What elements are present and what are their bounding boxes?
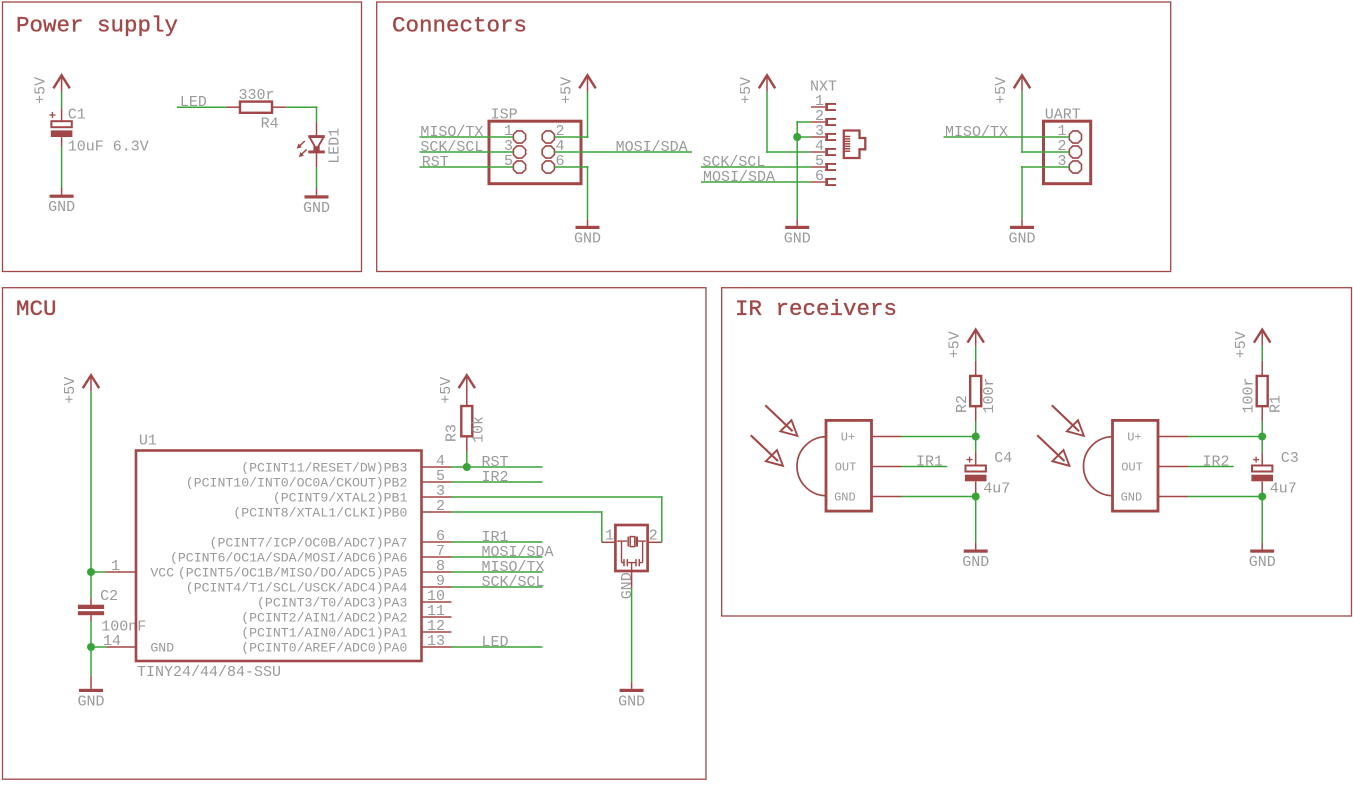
pin NXT 3 bbox=[811, 136, 825, 138]
svg-text:LED: LED bbox=[482, 634, 509, 651]
svg-text:(PCINT4/T1/SCL/USCK/ADC4)PA4: (PCINT4/T1/SCL/USCK/ADC4)PA4 bbox=[186, 580, 408, 595]
+5V supply IR1 bbox=[968, 330, 984, 343]
pin R3 top bbox=[466, 392, 468, 407]
wire PB1 to resonator pin2 bbox=[452, 496, 662, 498]
wire GND to cap IR1 bbox=[902, 496, 976, 498]
pin C3 minus bbox=[1261, 482, 1263, 497]
led LED1 emission arrows bbox=[299, 141, 304, 146]
wire OUT net IR1 bbox=[902, 466, 948, 468]
wire U+ to +5V IR2 bbox=[1188, 436, 1262, 438]
wire +5V to C1 bbox=[61, 92, 63, 109]
pin R2 top bbox=[975, 361, 977, 376]
frame Connectors section bbox=[377, 2, 1171, 272]
svg-text:R4: R4 bbox=[261, 115, 279, 132]
wire VCC to pin 1 bbox=[91, 571, 106, 573]
svg-text:C3: C3 bbox=[1281, 450, 1299, 467]
pin U1 9 bbox=[422, 586, 452, 588]
junction GND net IR2 bbox=[1258, 493, 1266, 501]
svg-text:GND: GND bbox=[1249, 554, 1276, 571]
wire IR1 bbox=[452, 541, 543, 543]
ir receiver module IR2 bbox=[1113, 420, 1159, 511]
pin U1 8 bbox=[422, 571, 452, 573]
junction VCC node bbox=[87, 568, 95, 576]
svg-text:(PCINT2/AIN1/ADC2)PA2: (PCINT2/AIN1/ADC2)PA2 bbox=[241, 610, 407, 625]
wire MOSI/SDA to NXT6 bbox=[701, 181, 811, 183]
svg-text:GND: GND bbox=[150, 640, 174, 655]
svg-text:(PCINT5/OC1B/MISO/DO/ADC5)PA5: (PCINT5/OC1B/MISO/DO/ADC5)PA5 bbox=[178, 565, 408, 580]
junction GND node bbox=[87, 643, 95, 651]
svg-text:Connectors: Connectors bbox=[392, 12, 527, 38]
svg-text:1: 1 bbox=[605, 528, 614, 545]
pin U1 1 VCC bbox=[106, 571, 136, 573]
svg-text:(PCINT7/ICP/OC0B/ADC7)PA7: (PCINT7/ICP/OC0B/ADC7)PA7 bbox=[210, 535, 408, 550]
wire +5V to VCC bbox=[90, 392, 92, 599]
svg-text:R1: R1 bbox=[1268, 395, 1285, 413]
svg-text:U+: U+ bbox=[1127, 431, 1141, 445]
svg-text:GND: GND bbox=[962, 554, 989, 571]
pin ISP 4 bbox=[542, 146, 554, 158]
wire LED1 to GND bbox=[316, 167, 318, 189]
pin U1 4 bbox=[422, 466, 452, 468]
pin U1 14 GND bbox=[107, 646, 136, 648]
svg-text:4u7: 4u7 bbox=[983, 481, 1010, 498]
capacitor C3 bbox=[1253, 459, 1259, 461]
pin U1 13 bbox=[422, 646, 452, 648]
wire SCK/SCL to NXT5 bbox=[701, 166, 811, 168]
wire +5V to R1 bbox=[1261, 346, 1263, 361]
svg-text:10uF 6.3V: 10uF 6.3V bbox=[68, 139, 149, 156]
wire R4 to LED1 bbox=[286, 106, 317, 108]
junction RST net bbox=[463, 463, 471, 471]
capacitor C2 bbox=[90, 598, 92, 604]
svg-text:(PCINT3/T0/ADC3)PA3: (PCINT3/T0/ADC3)PA3 bbox=[257, 595, 407, 610]
svg-text:(PCINT8/XTAL1/CLKI)PB0: (PCINT8/XTAL1/CLKI)PB0 bbox=[233, 505, 407, 520]
svg-text:GND: GND bbox=[784, 230, 811, 247]
ir light arrows IR2 bbox=[1052, 405, 1079, 431]
wire +5V to R2 bbox=[975, 346, 977, 361]
pin C4 plus bbox=[975, 453, 977, 466]
svg-text:R3: R3 bbox=[444, 424, 461, 442]
+5V supply P1 bbox=[53, 75, 69, 88]
wire GND node to pin 14 bbox=[91, 646, 107, 648]
junction GND net IR1 bbox=[972, 493, 980, 501]
ground GND7 bbox=[631, 682, 633, 689]
pin R1 bottom bbox=[1261, 406, 1263, 421]
svg-text:4u7: 4u7 bbox=[1270, 481, 1297, 498]
pin U1 6 bbox=[422, 541, 452, 543]
wire MISO/TX to ISP1 bbox=[420, 136, 514, 138]
wire R3 to RST bbox=[466, 452, 468, 468]
ground IR1 bbox=[975, 543, 977, 550]
pin UART 2 bbox=[1069, 146, 1081, 158]
ground GND3 bbox=[587, 219, 589, 226]
svg-text:+5V: +5V bbox=[993, 77, 1010, 104]
pin IR2 U+ bbox=[1158, 436, 1188, 438]
svg-text:+5V: +5V bbox=[33, 77, 50, 104]
svg-text:U+: U+ bbox=[841, 431, 855, 445]
pin C1 minus bbox=[61, 137, 63, 146]
svg-text:C1: C1 bbox=[68, 107, 86, 124]
wire +5V to NXT4 bbox=[766, 92, 768, 153]
svg-text:R2: R2 bbox=[954, 395, 971, 413]
resonator Q1 bbox=[602, 541, 616, 543]
svg-text:SCK/SCL: SCK/SCL bbox=[482, 574, 545, 591]
svg-text:LED1: LED1 bbox=[326, 128, 343, 164]
wire SCK/SCL to ISP3 bbox=[420, 151, 514, 153]
wire junction to cap C4 bbox=[975, 437, 977, 453]
pin R4 right bbox=[272, 106, 286, 108]
capacitor C4 bbox=[967, 459, 973, 461]
pin IR1 GND bbox=[872, 496, 902, 498]
pin LED1 cathode bbox=[316, 152, 318, 167]
pin R1 top bbox=[1261, 361, 1263, 376]
svg-text:(PCINT1/AIN0/ADC1)PA1: (PCINT1/AIN0/ADC1)PA1 bbox=[241, 625, 407, 640]
wire RST bbox=[452, 466, 543, 468]
svg-text:(PCINT6/OC1A/SDA/MOSI/ADC6)PA6: (PCINT6/OC1A/SDA/MOSI/ADC6)PA6 bbox=[170, 550, 407, 565]
svg-text:6: 6 bbox=[815, 168, 824, 185]
wire R2 to U+ net bbox=[975, 422, 977, 437]
pin R2 bottom bbox=[975, 406, 977, 421]
wire to GND IR1 bbox=[975, 497, 977, 544]
wire MISO/TX to UART1 bbox=[944, 136, 1070, 138]
svg-text:OUT: OUT bbox=[1121, 461, 1143, 475]
+5V supply P6 bbox=[459, 375, 475, 388]
ground GND4 bbox=[796, 219, 798, 226]
pin U1 7 bbox=[422, 556, 452, 558]
svg-text:+5V: +5V bbox=[738, 77, 755, 104]
wire IR2 bbox=[452, 481, 543, 483]
jack RJ12 symbol bbox=[844, 131, 866, 159]
svg-text:+5V: +5V bbox=[438, 377, 455, 404]
svg-text:GND: GND bbox=[48, 199, 75, 216]
wire +5V to ISP2 bbox=[587, 92, 589, 138]
+5V supply IR2 bbox=[1254, 330, 1270, 343]
svg-text:100r: 100r bbox=[981, 377, 998, 413]
frame MCU section bbox=[3, 288, 707, 780]
wire ISP6 to GND bbox=[554, 166, 588, 168]
svg-text:U1: U1 bbox=[139, 433, 157, 450]
wire to GND IR2 bbox=[1261, 497, 1263, 544]
+5V supply P2 bbox=[579, 75, 595, 88]
pin R4 left bbox=[226, 106, 240, 108]
pin C1 plus bbox=[61, 108, 63, 121]
svg-text:IR1: IR1 bbox=[916, 454, 943, 471]
svg-text:VCC: VCC bbox=[150, 565, 174, 580]
wire LED mcu bbox=[452, 646, 543, 648]
pin ISP 6 bbox=[542, 161, 554, 173]
svg-text:+5V: +5V bbox=[1233, 331, 1250, 358]
svg-text:C4: C4 bbox=[994, 450, 1012, 467]
wire PB0 to resonator pin1 bbox=[452, 511, 602, 513]
pin UART 1 bbox=[1069, 131, 1081, 143]
pin resonator gnd bbox=[631, 571, 633, 588]
+5V supply P4 bbox=[1014, 75, 1030, 88]
pin IR2 GND bbox=[1158, 496, 1188, 498]
svg-text:GND: GND bbox=[1008, 230, 1035, 247]
svg-text:MOSI/SDA: MOSI/SDA bbox=[703, 169, 775, 186]
junction NXT gnd net bbox=[793, 133, 801, 141]
svg-text:IR2: IR2 bbox=[1203, 454, 1230, 471]
svg-text:+5V: +5V bbox=[62, 377, 79, 404]
frame IR receivers section bbox=[722, 288, 1352, 616]
pin ISP 5 bbox=[513, 161, 525, 173]
ground GND5 bbox=[1021, 219, 1023, 226]
pin NXT 2 bbox=[811, 121, 825, 123]
svg-text:GND: GND bbox=[574, 230, 601, 247]
svg-text:MISO/TX: MISO/TX bbox=[945, 124, 1008, 141]
pin U1 10 bbox=[422, 601, 452, 603]
svg-text:OUT: OUT bbox=[835, 461, 857, 475]
led LED1 bbox=[308, 135, 325, 138]
ground GND2 bbox=[316, 189, 318, 196]
svg-text:2: 2 bbox=[649, 528, 658, 545]
wire MOSI/SDA mcu bbox=[452, 556, 543, 558]
ground IR2 bbox=[1261, 543, 1263, 550]
pin IR2 OUT bbox=[1158, 466, 1188, 468]
svg-text:13: 13 bbox=[427, 633, 445, 650]
+5V supply P5 bbox=[83, 375, 99, 388]
pin U1 2 bbox=[422, 511, 452, 513]
svg-text:1: 1 bbox=[111, 558, 120, 575]
wire GND to cap IR2 bbox=[1188, 496, 1262, 498]
frame Power supply section bbox=[3, 2, 362, 272]
svg-text:+5V: +5V bbox=[559, 77, 576, 104]
pin NXT 6 bbox=[811, 181, 825, 183]
ir receiver module IR1 bbox=[826, 420, 872, 511]
+5V supply P3 bbox=[759, 75, 775, 88]
svg-text:+5V: +5V bbox=[947, 331, 964, 358]
pin NXT 1 bbox=[811, 106, 825, 108]
junction U+ net IR2 bbox=[1258, 433, 1266, 441]
svg-text:C2: C2 bbox=[100, 588, 118, 605]
pin U1 12 bbox=[422, 631, 452, 633]
svg-text:330r: 330r bbox=[238, 87, 274, 104]
ir light arrows IR1 bbox=[765, 405, 792, 431]
svg-text:(PCINT0/AREF/ADC0)PA0: (PCINT0/AREF/ADC0)PA0 bbox=[241, 640, 407, 655]
resistor R4 bbox=[240, 102, 272, 113]
svg-text:10k: 10k bbox=[471, 416, 488, 443]
pin NXT 4 bbox=[811, 151, 825, 153]
svg-text:RST: RST bbox=[422, 154, 449, 171]
wire U+ to +5V IR1 bbox=[902, 436, 976, 438]
svg-text:100r: 100r bbox=[1240, 377, 1257, 413]
svg-text:GND: GND bbox=[834, 491, 856, 505]
svg-text:MCU: MCU bbox=[16, 296, 57, 322]
svg-text:IR receivers: IR receivers bbox=[735, 296, 897, 322]
pin U1 3 bbox=[422, 496, 452, 498]
wire net LED bbox=[177, 106, 226, 108]
svg-text:(PCINT11/RESET/DW)PB3: (PCINT11/RESET/DW)PB3 bbox=[241, 460, 407, 475]
wire SCK/SCL mcu bbox=[452, 586, 543, 588]
wire MISO/TX mcu bbox=[452, 571, 543, 573]
pin ISP 2 bbox=[542, 131, 554, 143]
wire ISP4 MOSI/SDA bbox=[554, 151, 692, 153]
svg-text:LED: LED bbox=[180, 94, 207, 111]
wire C1 to GND bbox=[61, 146, 63, 189]
wire +5V to UART2 bbox=[1021, 92, 1023, 153]
pin ISP 3 bbox=[513, 146, 525, 158]
svg-text:(PCINT9/XTAL2)PB1: (PCINT9/XTAL2)PB1 bbox=[273, 490, 408, 505]
resistor R3 bbox=[461, 406, 472, 436]
wire NXT2 NXT3 to GND bbox=[796, 121, 798, 219]
svg-text:14: 14 bbox=[103, 633, 121, 650]
junction U+ net IR1 bbox=[972, 433, 980, 441]
svg-text:2: 2 bbox=[436, 498, 445, 515]
pin LED1 anode bbox=[316, 122, 318, 136]
pin NXT 5 bbox=[811, 166, 825, 168]
wire RST to ISP5 bbox=[420, 166, 514, 168]
wire junction to cap C3 bbox=[1261, 437, 1263, 453]
pin U1 5 bbox=[422, 481, 452, 483]
wire OUT net IR2 bbox=[1188, 466, 1234, 468]
pin R3 bottom bbox=[466, 436, 468, 452]
wire resonator to GND bbox=[631, 588, 633, 682]
ground GND1 bbox=[61, 188, 63, 195]
svg-text:GND: GND bbox=[618, 693, 645, 710]
pin ISP 1 bbox=[513, 131, 525, 143]
svg-text:GND: GND bbox=[303, 200, 330, 217]
wire R1 to U+ net bbox=[1261, 422, 1263, 437]
svg-text:Power supply: Power supply bbox=[16, 12, 178, 38]
svg-text:TINY24/44/84-SSU: TINY24/44/84-SSU bbox=[137, 664, 281, 681]
ground GND6 bbox=[90, 682, 92, 689]
wire UART3 to GND bbox=[1021, 166, 1069, 168]
resistor R1 bbox=[1257, 376, 1268, 406]
pin IR1 OUT bbox=[872, 466, 902, 468]
svg-text:MOSI/SDA: MOSI/SDA bbox=[616, 139, 688, 156]
svg-text:GND: GND bbox=[77, 693, 104, 710]
pin UART 3 bbox=[1069, 161, 1081, 173]
pin IR1 U+ bbox=[872, 436, 902, 438]
svg-text:GND: GND bbox=[1121, 491, 1143, 505]
pin U1 11 bbox=[422, 616, 452, 618]
capacitor C1 bbox=[49, 114, 55, 116]
pin C4 minus bbox=[975, 482, 977, 497]
svg-text:IR2: IR2 bbox=[482, 469, 509, 486]
svg-text:(PCINT10/INT0/OC0A/CKOUT)PB2: (PCINT10/INT0/OC0A/CKOUT)PB2 bbox=[186, 475, 408, 490]
wire C2 to GND node bbox=[90, 622, 92, 676]
resistor R2 bbox=[970, 376, 981, 406]
pin C3 plus bbox=[1261, 453, 1263, 466]
svg-text:GND: GND bbox=[619, 572, 636, 599]
